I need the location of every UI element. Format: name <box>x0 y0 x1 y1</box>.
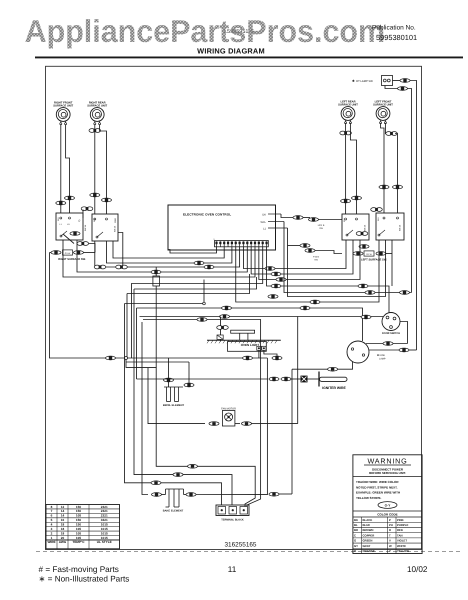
svg-text:YELLOW STRIPE.: YELLOW STRIPE. <box>356 496 382 500</box>
svg-text:SW 2A: SW 2A <box>114 225 117 232</box>
svg-text:14: 14 <box>61 514 65 518</box>
svg-text:BK: BK <box>354 518 358 522</box>
connector inside switch 1 <box>70 232 80 236</box>
bus wire to door switch <box>140 316 384 318</box>
bus wire to switch 2 right <box>113 241 224 258</box>
svg-text:DOOR SWITCH: DOOR SWITCH <box>382 332 400 335</box>
svg-text:105: 105 <box>76 531 81 535</box>
svg-text:RED: RED <box>397 528 403 532</box>
bus wire pin6 right <box>236 240 379 302</box>
svg-text:7: 7 <box>51 509 53 513</box>
wire to harness <box>89 244 96 253</box>
svg-text:OT LAMP SW: OT LAMP SW <box>356 80 373 83</box>
right surface switch 2 <box>92 214 118 241</box>
igniter bracket <box>318 372 320 387</box>
svg-text:C): C) <box>78 219 81 222</box>
igniter fuse <box>291 378 301 380</box>
svg-text:5: 5 <box>51 518 53 522</box>
bus wire EOC left lower <box>168 247 217 253</box>
bus wire pin7 left <box>95 241 240 267</box>
bus staircase a <box>125 280 205 304</box>
splice on LF lead <box>386 132 398 136</box>
svg-text:∗ = Non-Illustrated Parts: ∗ = Non-Illustrated Parts <box>39 575 130 584</box>
bus wire pin5 left <box>107 241 232 263</box>
bus wire pin10 right <box>251 240 353 274</box>
connector on lower lamp switch wire <box>398 87 408 91</box>
EOC terminal WFL <box>268 221 284 223</box>
scan artifact dashed line <box>36 551 462 553</box>
oven lamp right wire <box>369 349 399 351</box>
svg-text:TAN: TAN <box>397 533 403 537</box>
igniter connector 1 <box>269 377 279 381</box>
svg-text:20: 20 <box>61 536 65 540</box>
diagram border <box>46 66 422 549</box>
svg-text:HTR B: HTR B <box>318 224 325 227</box>
svg-text:YELLOW: YELLOW <box>397 549 409 553</box>
left surface switch harness <box>353 252 363 256</box>
fan motor left connector <box>209 422 219 426</box>
svg-text:ELECTRONIC OVEN CONTROL: ELECTRONIC OVEN CONTROL <box>183 213 231 217</box>
left surface switch 1 <box>342 214 369 240</box>
splice on LR lead <box>340 131 352 135</box>
bundle wire a <box>125 304 222 506</box>
bus wire pin12 right <box>259 240 360 280</box>
svg-text:2321: 2321 <box>101 514 108 518</box>
door switch <box>382 313 400 331</box>
oven light lower run connectors <box>243 356 253 360</box>
terminal block <box>216 505 249 516</box>
igniter connector 2 <box>281 377 291 381</box>
bake element <box>165 489 167 495</box>
oven light mount strip <box>207 339 281 341</box>
svg-text:BROIL ELEMENT: BROIL ELEMENT <box>163 404 185 407</box>
svg-text:105: 105 <box>76 514 81 518</box>
svg-text:WIRING DIAGRAM: WIRING DIAGRAM <box>197 47 265 56</box>
bus staircase b <box>127 274 250 294</box>
terminal block right feed <box>247 494 261 507</box>
svg-text:BROWN: BROWN <box>363 528 374 532</box>
bundle wire d <box>136 308 138 379</box>
EOC terminal L1 <box>268 227 288 229</box>
junction branch <box>126 360 255 507</box>
oven light junction block <box>217 335 223 339</box>
connector below switch 1 <box>77 242 89 246</box>
connector below left switch 1 <box>359 245 369 249</box>
wire LR coil left lead <box>345 123 347 214</box>
svg-text:TEMP°C: TEMP°C <box>72 540 85 544</box>
svg-text:SW 2A: SW 2A <box>399 224 402 231</box>
svg-text:TERMINAL BLOCK: TERMINAL BLOCK <box>221 519 244 522</box>
warning box <box>353 455 422 554</box>
svg-text:BLUE: BLUE <box>363 523 371 527</box>
connector <box>393 185 403 189</box>
svg-text:# = Fast-moving Parts: # = Fast-moving Parts <box>39 565 119 574</box>
svg-text:GREEN: GREEN <box>363 539 373 543</box>
EOC connector pin strip P1 <box>215 241 269 247</box>
svg-text:SURFACE UNIT: SURFACE UNIT <box>338 103 358 106</box>
svg-text:R: R <box>389 528 391 532</box>
broil element <box>164 386 183 388</box>
svg-text:BAKE ELEMENT: BAKE ELEMENT <box>163 510 184 513</box>
igniter element <box>320 377 348 381</box>
bus wire pin13 to bundle <box>132 247 263 358</box>
svg-text:GY: GY <box>354 544 358 548</box>
connector <box>65 196 75 200</box>
splice on RR lead <box>89 129 101 133</box>
svg-text:P: P <box>389 518 391 522</box>
arm below switch 1 <box>63 234 74 244</box>
svg-text:BR: BR <box>354 528 358 532</box>
wire between switches <box>82 210 84 219</box>
svg-text:5995380101: 5995380101 <box>376 33 417 42</box>
svg-text:DK: DK <box>262 214 266 217</box>
svg-text:16: 16 <box>61 518 65 522</box>
EOC lower harness <box>288 245 301 247</box>
bus wire L1 right <box>284 222 412 293</box>
svg-text:150: 150 <box>76 518 81 522</box>
svg-text:WFL: WFL <box>261 221 267 224</box>
svg-text:LEFT SURFACE SW.: LEFT SURFACE SW. <box>361 259 387 262</box>
svg-text:10/02: 10/02 <box>407 565 428 574</box>
svg-text:18: 18 <box>61 527 65 531</box>
connector <box>102 198 112 202</box>
svg-text:RIGHT SURFACE SW.: RIGHT SURFACE SW. <box>58 258 86 261</box>
svg-text:EXAMPLE: GREEN WIRE WITH: EXAMPLE: GREEN WIRE WITH <box>356 491 400 495</box>
svg-text:3321: 3321 <box>101 518 108 522</box>
svg-text:4: 4 <box>51 523 53 527</box>
svg-text:AWG: AWG <box>59 540 67 544</box>
wire from lamp switch to right side <box>393 80 401 82</box>
svg-text:NOTED FIRST, STRIPE NEXT.: NOTED FIRST, STRIPE NEXT. <box>356 485 398 489</box>
svg-text:GRAY: GRAY <box>363 544 371 548</box>
svg-text:8: 8 <box>51 505 53 509</box>
svg-text:105: 105 <box>76 527 81 531</box>
svg-text:WARNING: WARNING <box>367 457 407 466</box>
svg-text:18: 18 <box>61 531 65 535</box>
wire to right vertical <box>410 81 417 351</box>
svg-text:1015: 1015 <box>101 523 108 527</box>
svg-text:GY-W: GY-W <box>366 253 372 256</box>
bundle wire f <box>148 368 205 424</box>
svg-text:11: 11 <box>228 565 237 574</box>
svg-text:ORANGE: ORANGE <box>363 549 375 553</box>
svg-text:316255165: 316255165 <box>225 542 257 549</box>
oven lamp bottom wire <box>292 362 353 370</box>
bus wire mid right a <box>137 308 363 341</box>
svg-text:GY-W: GY-W <box>65 252 71 255</box>
svg-text:IGNITER WIRE: IGNITER WIRE <box>322 386 346 390</box>
svg-text:1015: 1015 <box>101 527 108 531</box>
bundle wire c <box>134 289 232 505</box>
oven light box <box>228 342 267 352</box>
svg-text:PINK: PINK <box>397 518 404 522</box>
branch wire y362 <box>126 361 189 363</box>
svg-text:T: T <box>389 533 391 537</box>
wire from switch 2 right <box>118 233 123 268</box>
wire switch4 down <box>391 240 393 286</box>
svg-text:G: G <box>354 539 356 543</box>
svg-text:LAMP: LAMP <box>379 358 386 361</box>
wire from lamp switch lower <box>385 86 398 89</box>
relay component <box>153 276 160 286</box>
wire down to bake row <box>266 358 268 494</box>
wire gauge table <box>46 505 120 549</box>
svg-text:150: 150 <box>76 509 81 513</box>
svg-text:VIOLET: VIOLET <box>397 539 407 543</box>
bus wire lower mid <box>143 320 261 494</box>
svg-text:2321: 2321 <box>101 509 108 513</box>
svg-text:SURFACE UNIT: SURFACE UNIT <box>53 104 73 107</box>
right surface switch 1 <box>56 213 83 240</box>
left surface switch 2 <box>376 213 404 240</box>
svg-text:BL: BL <box>354 523 358 527</box>
bake element row left <box>152 493 162 497</box>
svg-text:2: 2 <box>51 531 53 535</box>
connector <box>352 196 362 200</box>
svg-text:UL STYLE: UL STYLE <box>97 540 112 544</box>
svg-text:1015: 1015 <box>101 531 108 535</box>
relay component wire <box>155 267 157 276</box>
oven light lower wire <box>258 350 260 358</box>
wire LF coil right lead <box>385 123 388 134</box>
svg-text:PU: PU <box>389 523 393 527</box>
left feeder wire <box>50 253 268 359</box>
svg-text:BLACK: BLACK <box>363 518 373 522</box>
bundle wire b <box>126 294 128 359</box>
svg-text:Publication No.: Publication No. <box>372 25 416 32</box>
fan row right extension <box>261 423 298 425</box>
right surface switch harness <box>50 252 53 254</box>
svg-text:V: V <box>389 539 391 543</box>
svg-text:105: 105 <box>76 536 81 540</box>
wire RR coil left lead <box>94 124 96 214</box>
wire LF coil left lead <box>381 123 384 213</box>
EOC DK harness <box>281 214 293 218</box>
svg-text:G-Y: G-Y <box>385 504 392 508</box>
splice below left switch 1 <box>356 232 368 236</box>
electronic oven control box <box>168 205 276 250</box>
bus wire pin9 left <box>77 240 247 272</box>
oven light bar <box>231 330 255 333</box>
svg-text:18: 18 <box>61 523 65 527</box>
EOC terminal DK <box>268 213 281 215</box>
svg-text:AppliancePartsPros.com: AppliancePartsPros.com <box>25 13 386 49</box>
svg-text:1: 1 <box>51 536 53 540</box>
svg-text:150: 150 <box>76 505 81 509</box>
door switch side loop <box>400 322 408 344</box>
fan motor box <box>222 411 235 427</box>
connector <box>379 185 389 189</box>
oven lamp <box>347 341 369 363</box>
connector <box>56 201 66 205</box>
svg-text:BEFORE SERVICING UNIT.: BEFORE SERVICING UNIT. <box>369 471 406 475</box>
bus wire WFL right <box>288 228 386 297</box>
svg-text:PURPLE: PURPLE <box>397 523 408 527</box>
bus wire pin14 right <box>267 247 389 313</box>
connector <box>341 199 351 203</box>
svg-text:C: C <box>354 533 356 537</box>
svg-text:✱: ✱ <box>352 79 355 83</box>
svg-text:6: 6 <box>51 514 53 518</box>
svg-text:1015: 1015 <box>101 536 108 540</box>
fan motor right wire <box>235 423 240 425</box>
broil element right lead <box>188 362 190 387</box>
svg-text:14: 14 <box>61 509 65 513</box>
igniter wire run <box>137 378 269 380</box>
svg-text:12: 12 <box>61 505 65 509</box>
svg-text:3: 3 <box>51 527 53 531</box>
svg-text:SURFACE UNIT: SURFACE UNIT <box>87 104 107 107</box>
svg-text:2321: 2321 <box>101 505 108 509</box>
svg-text:COLOR CODE: COLOR CODE <box>377 513 397 517</box>
svg-text:WIRE: WIRE <box>47 540 55 544</box>
svg-text:SW 2A: SW 2A <box>84 224 87 231</box>
connector between switches <box>81 207 93 211</box>
wire down right side <box>408 89 412 293</box>
svg-text:SURFACE UNIT: SURFACE UNIT <box>373 103 393 106</box>
wire LF right lead down <box>395 134 398 214</box>
bus wire pin8 right <box>243 240 346 269</box>
oven light feed <box>220 317 222 336</box>
wire down right of oven light <box>291 369 293 494</box>
svg-text:150: 150 <box>76 523 81 527</box>
wire RR coil right lead <box>100 124 107 214</box>
bundle wire e <box>142 322 148 495</box>
oven lamp top wire <box>366 343 408 345</box>
svg-text:SW8: SW8 <box>114 217 117 223</box>
svg-text:P16 B: P16 B <box>313 256 319 259</box>
svg-text:TRACER WIRE: WIRE COLOR: TRACER WIRE: WIRE COLOR <box>356 480 399 484</box>
wire RF coil right lead <box>66 124 70 213</box>
bake element right run <box>184 494 187 496</box>
wire down second <box>297 317 299 424</box>
connector on lamp switch wire <box>400 79 410 83</box>
svg-text:FAN MOTOR: FAN MOTOR <box>221 408 236 411</box>
bus wire pin11 left <box>63 240 255 277</box>
bus staircase c <box>134 277 257 289</box>
connector between left switches <box>371 208 383 212</box>
svg-text:SW 2A: SW 2A <box>364 224 367 231</box>
svg-text:W: W <box>389 544 392 548</box>
broil element left lead <box>168 358 170 387</box>
wire LR coil right lead <box>350 123 356 214</box>
svg-text:WHITE: WHITE <box>397 544 406 548</box>
svg-text:COPPER: COPPER <box>363 533 375 537</box>
wire RF coil left lead <box>60 124 62 213</box>
connector <box>90 193 100 197</box>
svg-text:Y: Y <box>389 549 391 553</box>
junction node <box>125 357 128 360</box>
